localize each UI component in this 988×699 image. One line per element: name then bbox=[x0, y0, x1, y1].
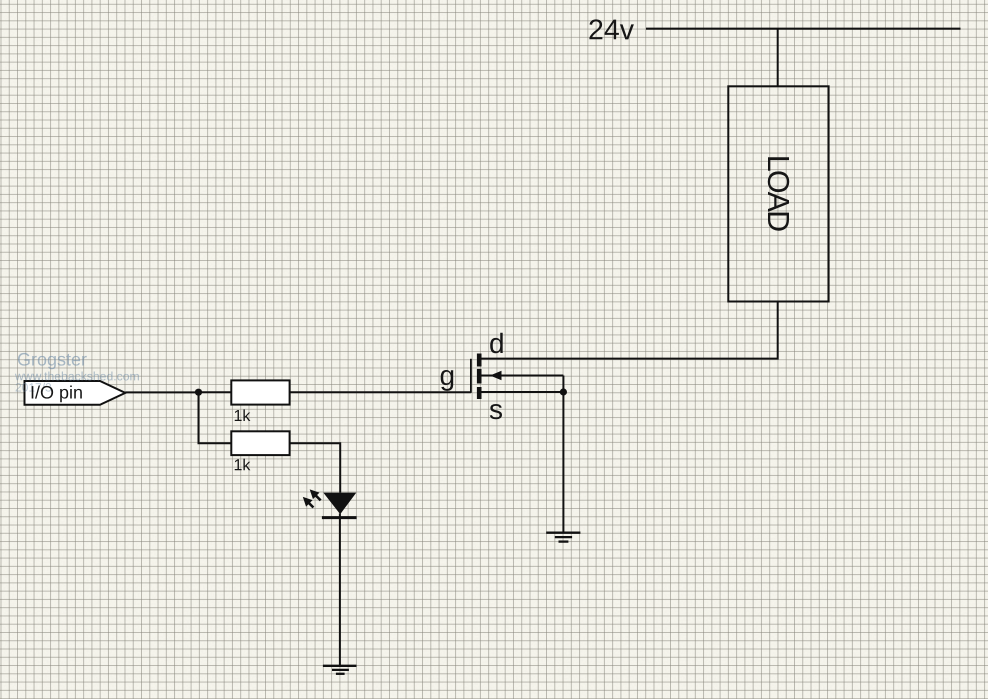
wire 24v top rail bbox=[646, 28, 961, 30]
pin label s bbox=[489, 394, 503, 425]
wire flag to node bbox=[125, 391, 198, 393]
junction source node bbox=[560, 388, 567, 395]
pin label d bbox=[489, 328, 505, 359]
LED D1 bbox=[322, 493, 357, 518]
watermark Grogster bbox=[14, 350, 140, 395]
wire R1 to gate bbox=[290, 391, 471, 393]
LED emission arrows bbox=[300, 486, 324, 511]
svg-text:LOAD: LOAD bbox=[761, 155, 795, 231]
wire LED to ground bbox=[339, 514, 341, 666]
connector flag text bbox=[30, 383, 83, 403]
wire source to ground bbox=[562, 392, 564, 533]
wire R2 to LED bbox=[290, 443, 341, 492]
resistor R1 bbox=[231, 380, 289, 404]
wire body-diode arrow to source bbox=[482, 371, 564, 392]
wire node down to R2 bbox=[199, 392, 232, 443]
value label 1k (R2) bbox=[233, 457, 251, 474]
connector flag I/O pin bbox=[25, 381, 126, 405]
junction input node bbox=[195, 389, 202, 396]
svg-text:1k: 1k bbox=[233, 408, 251, 425]
svg-text:s: s bbox=[489, 394, 503, 425]
ground LED bbox=[323, 666, 357, 674]
svg-text:1k: 1k bbox=[233, 457, 251, 474]
wire 24v rail to LOAD top bbox=[777, 29, 779, 87]
ground source bbox=[546, 533, 580, 542]
svg-text:Grogster: Grogster bbox=[17, 350, 87, 370]
svg-text:d: d bbox=[489, 328, 505, 359]
resistor R2 bbox=[231, 431, 289, 455]
wire node to R1 bbox=[199, 391, 232, 393]
wire LOAD bottom to drain corner bbox=[482, 302, 778, 359]
transistor Q1 N-channel MOSFET bbox=[471, 354, 482, 400]
svg-text:24v: 24v bbox=[588, 14, 635, 46]
pin label g bbox=[439, 360, 455, 391]
svg-text:I/O pin: I/O pin bbox=[30, 383, 83, 403]
net label 24v bbox=[588, 14, 635, 46]
svg-text:g: g bbox=[439, 360, 455, 391]
wire source horizontal bbox=[482, 391, 564, 393]
load box LOAD bbox=[728, 86, 828, 301]
value label 1k (R1) bbox=[233, 408, 251, 425]
